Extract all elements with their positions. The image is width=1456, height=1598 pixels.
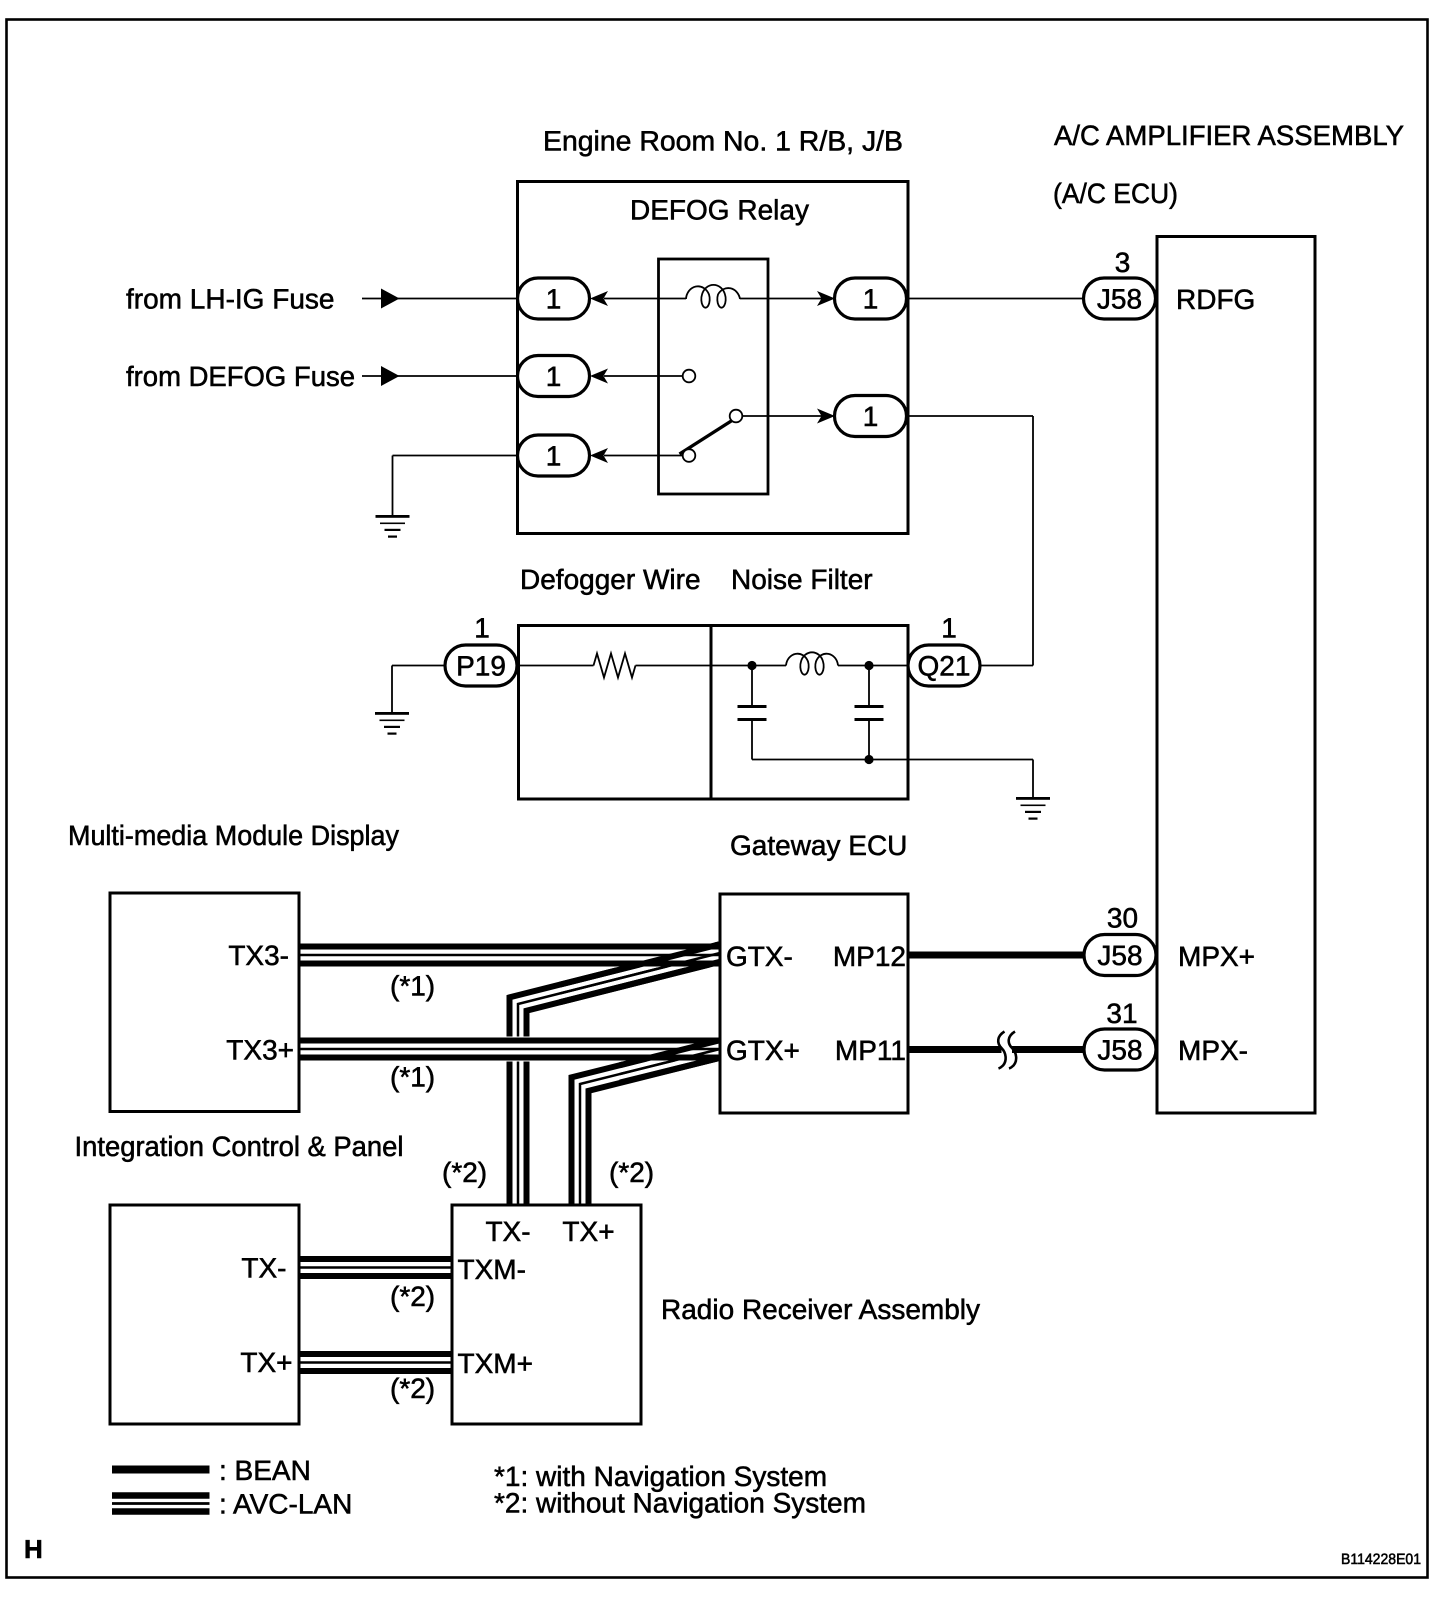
svg-text:Engine Room No. 1 R/B, J/B: Engine Room No. 1 R/B, J/B — [543, 126, 903, 157]
svg-text:MPX-: MPX- — [1178, 1035, 1248, 1066]
svg-text:30: 30 — [1107, 903, 1138, 934]
svg-text:(A/C ECU): (A/C ECU) — [1053, 178, 1178, 209]
svg-text:1: 1 — [941, 613, 957, 644]
svg-text:1: 1 — [863, 401, 879, 432]
svg-text:1: 1 — [546, 441, 562, 472]
svg-text:(*1): (*1) — [390, 971, 435, 1002]
svg-text:*2: without Navigation System: *2: without Navigation System — [494, 1488, 866, 1519]
svg-text:TXM-: TXM- — [458, 1254, 526, 1285]
svg-text:TX+: TX+ — [240, 1347, 292, 1378]
svg-text:TX+: TX+ — [562, 1216, 614, 1247]
svg-text:TXM+: TXM+ — [458, 1348, 533, 1379]
svg-text:Multi-media Module Display: Multi-media Module Display — [68, 820, 399, 851]
svg-text:MP12: MP12 — [833, 941, 906, 972]
svg-text:J58: J58 — [1097, 940, 1142, 971]
svg-text:1: 1 — [474, 613, 490, 644]
svg-text:: AVC-LAN: : AVC-LAN — [219, 1489, 352, 1520]
svg-text:(*2): (*2) — [390, 1281, 435, 1312]
svg-text:: BEAN: : BEAN — [219, 1455, 311, 1486]
svg-text:(*2): (*2) — [609, 1157, 654, 1188]
svg-text:GTX-: GTX- — [726, 941, 793, 972]
svg-text:Gateway ECU: Gateway ECU — [730, 830, 907, 861]
svg-text:(*2): (*2) — [442, 1157, 487, 1188]
svg-text:Noise Filter: Noise Filter — [731, 564, 873, 595]
svg-text:MP11: MP11 — [835, 1035, 906, 1066]
svg-text:3: 3 — [1115, 247, 1131, 278]
svg-text:H: H — [24, 1534, 43, 1564]
svg-text:from DEFOG Fuse: from DEFOG Fuse — [126, 361, 355, 392]
svg-text:TX-: TX- — [485, 1216, 530, 1247]
svg-text:MPX+: MPX+ — [1178, 941, 1255, 972]
svg-text:B114228E01: B114228E01 — [1341, 1551, 1421, 1568]
svg-text:Q21: Q21 — [918, 651, 971, 682]
svg-text:Integration Control & Panel: Integration Control & Panel — [75, 1131, 404, 1162]
svg-text:RDFG: RDFG — [1176, 284, 1255, 315]
svg-text:Defogger Wire: Defogger Wire — [520, 564, 701, 595]
svg-text:DEFOG Relay: DEFOG Relay — [630, 195, 809, 226]
svg-text:1: 1 — [863, 284, 879, 315]
svg-text:Radio Receiver Assembly: Radio Receiver Assembly — [661, 1294, 980, 1325]
svg-text:J58: J58 — [1097, 284, 1142, 315]
svg-text:31: 31 — [1106, 998, 1137, 1029]
svg-text:1: 1 — [546, 284, 562, 315]
svg-text:A/C AMPLIFIER ASSEMBLY: A/C AMPLIFIER ASSEMBLY — [1054, 120, 1404, 151]
svg-text:(*1): (*1) — [390, 1062, 435, 1093]
svg-text:from LH-IG Fuse: from LH-IG Fuse — [126, 283, 334, 314]
svg-text:(*2): (*2) — [390, 1373, 435, 1404]
svg-text:1: 1 — [546, 361, 562, 392]
svg-text:TX3+: TX3+ — [226, 1035, 294, 1066]
svg-text:P19: P19 — [456, 651, 506, 682]
svg-text:TX-: TX- — [241, 1253, 286, 1284]
svg-text:TX3-: TX3- — [228, 940, 289, 971]
svg-text:J58: J58 — [1097, 1035, 1142, 1066]
svg-text:GTX+: GTX+ — [726, 1035, 800, 1066]
